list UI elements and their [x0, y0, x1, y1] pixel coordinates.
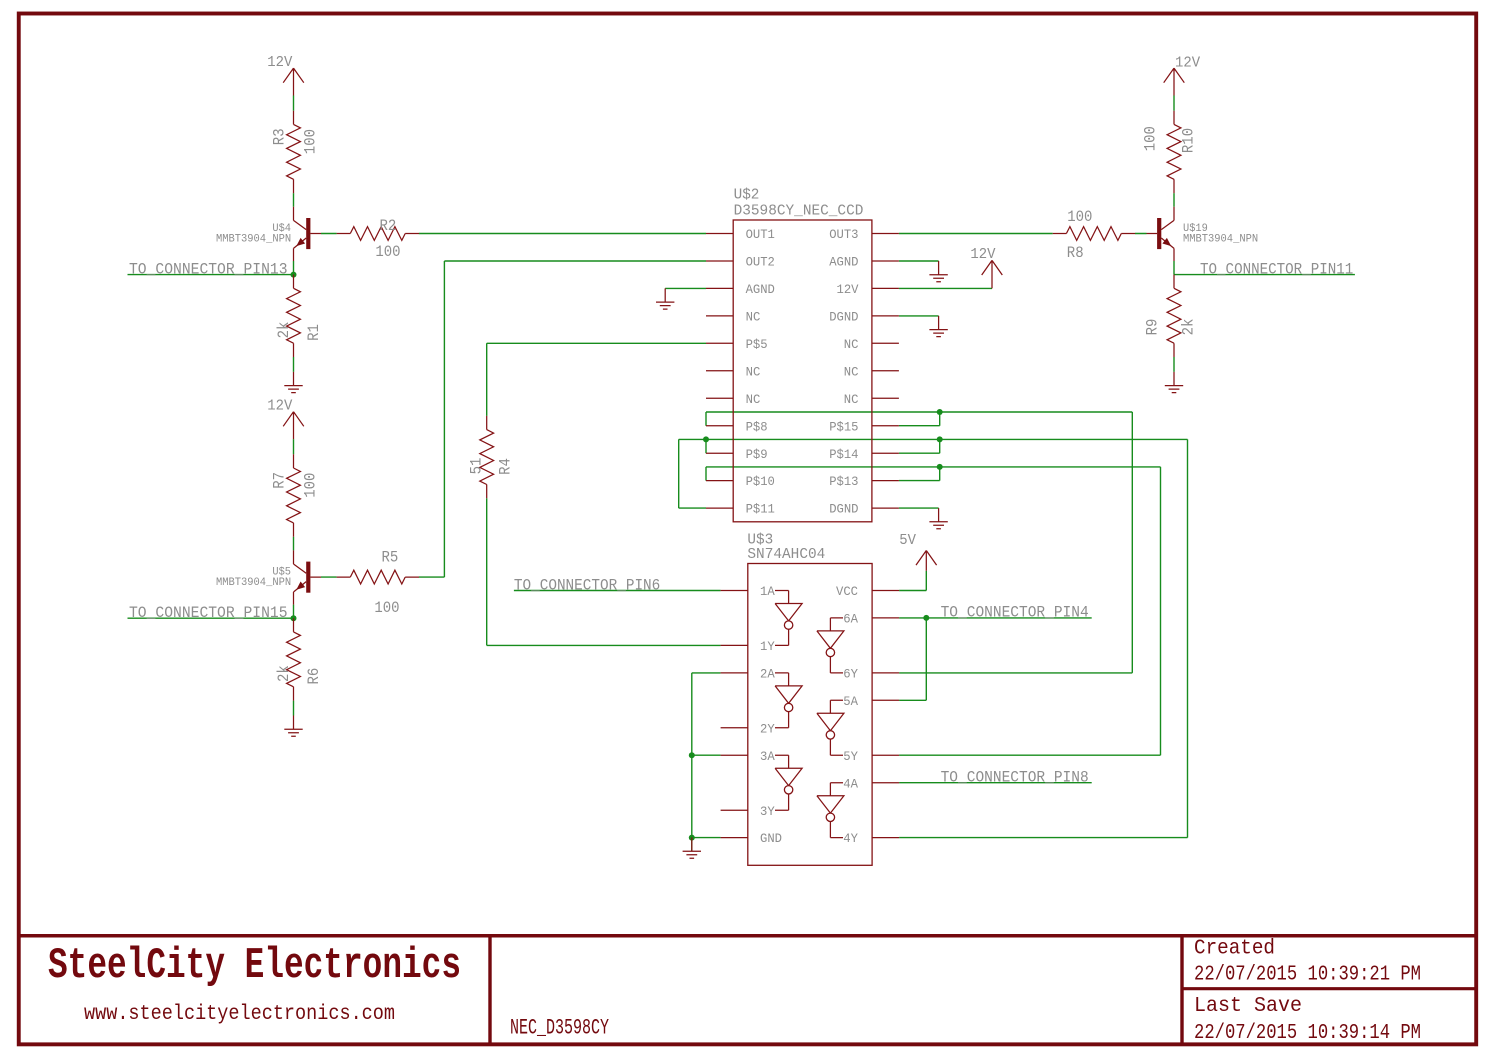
svg-text:4A: 4A [843, 776, 858, 791]
svg-text:SN74AHC04: SN74AHC04 [747, 546, 825, 563]
svg-text:100: 100 [302, 473, 320, 498]
svg-text:51: 51 [468, 458, 486, 475]
svg-text:MMBT3904_NPN: MMBT3904_NPN [1183, 233, 1258, 245]
svg-text:100: 100 [375, 243, 400, 261]
svg-text:OUT2: OUT2 [746, 255, 775, 270]
svg-text:R2: R2 [380, 217, 397, 235]
svg-text:22/07/2015 10:39:21 PM: 22/07/2015 10:39:21 PM [1194, 964, 1421, 987]
svg-text:P$13: P$13 [829, 474, 858, 489]
svg-text:R3: R3 [271, 128, 289, 145]
svg-text:NC: NC [844, 364, 859, 379]
svg-text:100: 100 [1067, 208, 1092, 226]
svg-text:1Y: 1Y [760, 639, 775, 654]
svg-text:Created: Created [1194, 938, 1275, 961]
svg-text:TO_CONNECTOR_PIN6: TO_CONNECTOR_PIN6 [514, 576, 660, 594]
svg-text:R10: R10 [1180, 128, 1198, 153]
svg-text:NC: NC [844, 392, 859, 407]
svg-text:12V: 12V [267, 54, 292, 71]
svg-text:AGND: AGND [746, 282, 775, 297]
svg-text:R4: R4 [497, 458, 515, 475]
svg-text:P$9: P$9 [746, 447, 768, 462]
svg-text:www.steelcityelectronics.com: www.steelcityelectronics.com [84, 1003, 395, 1026]
svg-text:D3598CY_NEC_CCD: D3598CY_NEC_CCD [734, 203, 864, 220]
svg-text:R1: R1 [305, 324, 323, 341]
svg-text:100: 100 [302, 129, 320, 154]
svg-text:100: 100 [1142, 126, 1160, 151]
svg-text:P$5: P$5 [746, 337, 768, 352]
svg-text:DGND: DGND [829, 502, 858, 517]
svg-text:NC: NC [746, 364, 761, 379]
svg-text:12V: 12V [1175, 55, 1200, 72]
svg-text:2k: 2k [275, 322, 293, 339]
svg-text:4Y: 4Y [843, 831, 858, 846]
svg-text:R8: R8 [1067, 244, 1084, 262]
svg-text:2k: 2k [275, 665, 293, 682]
svg-text:P$15: P$15 [829, 419, 858, 434]
svg-text:P$11: P$11 [746, 502, 775, 517]
svg-text:R9: R9 [1144, 319, 1162, 336]
svg-text:NC: NC [746, 392, 761, 407]
svg-text:Last Save: Last Save [1194, 995, 1302, 1018]
svg-text:12V: 12V [267, 398, 292, 415]
svg-text:U$2: U$2 [734, 187, 760, 204]
svg-text:OUT3: OUT3 [829, 227, 858, 242]
svg-text:MMBT3904_NPN: MMBT3904_NPN [216, 233, 291, 245]
svg-text:TO_CONNECTOR_PIN4: TO_CONNECTOR_PIN4 [941, 604, 1089, 622]
svg-text:SteelCity Electronics: SteelCity Electronics [48, 941, 461, 991]
svg-text:R5: R5 [382, 548, 399, 566]
svg-text:P$8: P$8 [746, 419, 768, 434]
svg-text:3A: 3A [760, 749, 775, 764]
svg-text:12V: 12V [837, 282, 859, 297]
svg-text:MMBT3904_NPN: MMBT3904_NPN [216, 577, 291, 589]
svg-text:TO_CONNECTOR_PIN11: TO_CONNECTOR_PIN11 [1200, 260, 1353, 278]
svg-text:NC: NC [746, 310, 761, 325]
svg-text:OUT1: OUT1 [746, 227, 775, 242]
svg-text:NC: NC [844, 337, 859, 352]
svg-text:12V: 12V [970, 246, 995, 263]
svg-text:NEC_D3598CY: NEC_D3598CY [510, 1016, 609, 1041]
svg-text:6Y: 6Y [843, 667, 858, 682]
svg-text:P$14: P$14 [829, 447, 858, 462]
svg-text:100: 100 [374, 599, 399, 617]
svg-text:DGND: DGND [829, 310, 858, 325]
svg-text:VCC: VCC [836, 584, 858, 599]
svg-text:22/07/2015 10:39:14 PM: 22/07/2015 10:39:14 PM [1194, 1022, 1421, 1045]
svg-text:6A: 6A [843, 612, 858, 627]
svg-text:TO_CONNECTOR_PIN8: TO_CONNECTOR_PIN8 [941, 769, 1089, 787]
svg-text:2k: 2k [1180, 319, 1198, 336]
svg-text:5Y: 5Y [843, 749, 858, 764]
svg-text:P$10: P$10 [746, 474, 775, 489]
svg-text:AGND: AGND [829, 255, 858, 270]
svg-text:2Y: 2Y [760, 721, 775, 736]
svg-text:1A: 1A [760, 584, 775, 599]
svg-text:2A: 2A [760, 667, 775, 682]
svg-text:R7: R7 [271, 472, 289, 489]
svg-text:R6: R6 [305, 668, 323, 685]
svg-text:TO_CONNECTOR_PIN15: TO_CONNECTOR_PIN15 [129, 604, 288, 622]
svg-text:GND: GND [760, 831, 782, 846]
svg-text:5V: 5V [899, 532, 916, 549]
svg-text:3Y: 3Y [760, 804, 775, 819]
svg-text:5A: 5A [843, 694, 858, 709]
svg-text:TO_CONNECTOR_PIN13: TO_CONNECTOR_PIN13 [129, 260, 288, 278]
